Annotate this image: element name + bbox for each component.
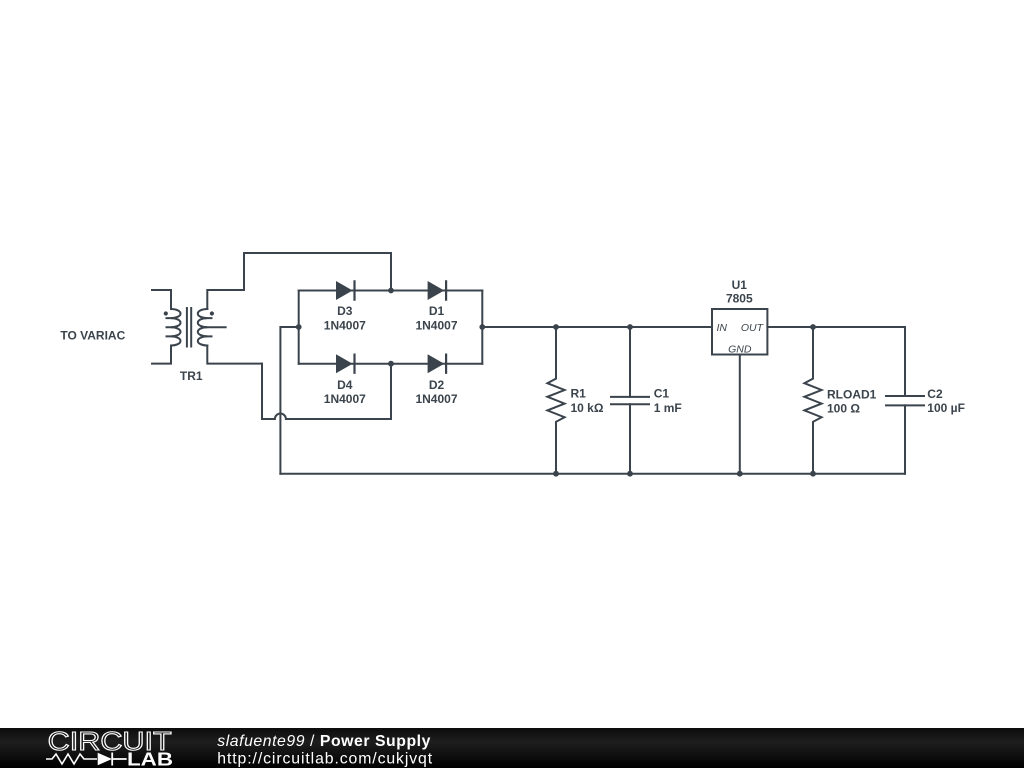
node C1 bottom	[627, 471, 633, 477]
svg-text:GND: GND	[728, 343, 752, 355]
wire bridge bottom row	[299, 363, 483, 365]
node U1 GND bottom	[737, 471, 743, 477]
svg-text:IN: IN	[717, 322, 728, 334]
capacitor C1 plates	[611, 397, 649, 404]
wire from bridge left node to ground rail	[280, 327, 298, 474]
svg-text:C1: C1	[654, 387, 670, 401]
svg-text:7805: 7805	[726, 292, 753, 306]
svg-text:RLOAD1: RLOAD1	[827, 387, 877, 401]
wire riser to top run	[243, 253, 245, 290]
op-amp U1 box (7805 regulator)	[712, 309, 767, 355]
transformer TR1 secondary winding	[198, 309, 208, 346]
diode D4	[336, 354, 356, 374]
node R1 top	[553, 324, 559, 330]
node RLOAD1 bottom	[810, 471, 816, 477]
svg-text:TO VARIAC: TO VARIAC	[60, 329, 125, 343]
node R1 bottom	[553, 471, 559, 477]
transformer TR1 secondary phase dot	[210, 311, 214, 315]
wire secondary top lead	[207, 290, 244, 309]
svg-text:LAB: LAB	[127, 750, 173, 768]
diode D2	[428, 354, 448, 374]
node bridge right	[479, 324, 485, 330]
node C1 top	[627, 324, 633, 330]
svg-text:OUT: OUT	[741, 322, 765, 334]
transformer TR1 secondary center tap stub	[203, 326, 226, 328]
resistor R1	[547, 327, 564, 474]
transformer TR1 primary phase dot	[164, 311, 168, 315]
node RLOAD1 top	[810, 324, 816, 330]
wire drop to bridge top node	[390, 253, 392, 291]
svg-text:100 µF: 100 µF	[927, 401, 965, 415]
svg-text:100 Ω: 100 Ω	[827, 401, 860, 415]
svg-text:1N4007: 1N4007	[324, 392, 366, 406]
wire riser secondary bottom	[261, 364, 263, 419]
node bridge left	[296, 324, 302, 330]
svg-text:D2: D2	[429, 378, 445, 392]
svg-text:slafuente99 / Power Supply: slafuente99 / Power Supply	[217, 733, 431, 750]
wire bridge output to U1 IN	[482, 326, 712, 328]
svg-text:1N4007: 1N4007	[324, 319, 366, 333]
transformer TR1 primary bottom lead	[152, 346, 171, 364]
transformer TR1 primary top lead	[152, 290, 171, 309]
svg-text:1N4007: 1N4007	[415, 392, 457, 406]
diode D3	[336, 280, 356, 300]
wire secondary bottom lead	[207, 346, 262, 364]
wire ground rail	[280, 473, 905, 475]
svg-text:D4: D4	[337, 378, 353, 392]
wire bridge right edge	[481, 291, 483, 364]
logo resistor zigzag	[46, 754, 97, 764]
transformer TR1 primary winding nubs	[167, 318, 176, 336]
svg-text:http://circuitlab.com/cukjvqt: http://circuitlab.com/cukjvqt	[217, 751, 433, 768]
node bridge top	[388, 288, 394, 294]
svg-text:R1: R1	[571, 387, 587, 401]
svg-text:D3: D3	[337, 304, 353, 318]
svg-text:10 kΩ: 10 kΩ	[571, 401, 604, 415]
transformer TR1 core	[187, 308, 191, 347]
wire lower run with hop over vertical	[262, 414, 391, 419]
capacitor C1 leads	[629, 327, 631, 474]
transformer TR1 secondary winding nubs	[203, 318, 212, 336]
svg-text:1 mF: 1 mF	[654, 401, 682, 415]
node bridge bottom	[388, 361, 394, 367]
svg-text:D1: D1	[429, 304, 445, 318]
wire U1 GND lead	[739, 355, 741, 474]
diode D1	[428, 280, 448, 300]
svg-text:C2: C2	[927, 387, 943, 401]
wire bridge left edge	[298, 291, 300, 364]
svg-text:TR1: TR1	[180, 369, 203, 383]
wire top run	[244, 252, 391, 254]
wire bridge top row	[299, 290, 483, 292]
wire up to bridge bottom node	[390, 364, 392, 419]
svg-text:1N4007: 1N4007	[415, 319, 457, 333]
svg-text:U1: U1	[732, 278, 748, 292]
wire U1 OUT run	[767, 326, 905, 328]
logo diode	[98, 753, 112, 765]
resistor RLOAD1	[804, 327, 821, 474]
transformer TR1 primary winding	[171, 309, 181, 346]
capacitor C2 plates	[886, 396, 924, 405]
capacitor C2 leads	[904, 327, 906, 474]
